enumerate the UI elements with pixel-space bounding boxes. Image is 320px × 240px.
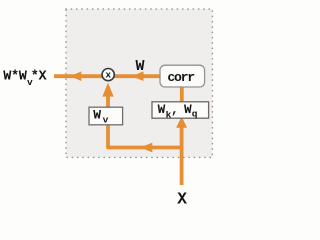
label W*Wv*X (output) (3, 69, 47, 87)
svg-text:W: W (184, 102, 192, 117)
svg-text:W*W: W*W (3, 69, 27, 84)
wire: branch from X line left then up to Wv box (108, 125, 182, 147)
wire: Wv box up to multiply circle (106, 96, 110, 108)
wire: corr box down to Wk,Wq box (180, 87, 184, 102)
dotted container box (66, 9, 212, 157)
svg-text:,: , (171, 102, 179, 117)
corr box (160, 65, 205, 87)
multiply node (circle with x) (102, 69, 114, 81)
svg-text:W: W (158, 102, 166, 117)
box Wk, Wq (152, 102, 209, 121)
arrowhead on output wire (points left) (70, 71, 81, 81)
arrowhead into multiply circle (points up) (102, 83, 113, 97)
wire: input X up to Wk,Wq box (180, 126, 184, 185)
svg-text:*X: *X (31, 69, 48, 84)
arrowhead into Wk,Wq box (points up) (176, 117, 187, 128)
svg-text:v: v (103, 114, 109, 125)
svg-text:W: W (136, 58, 145, 75)
svg-text:corr: corr (167, 70, 194, 85)
wire: output line from multiply circle to left label (54, 74, 102, 78)
svg-text:q: q (192, 109, 198, 120)
svg-text:X: X (177, 191, 187, 209)
box Wv (89, 107, 123, 125)
wire: corr box to multiply circle (114, 74, 160, 78)
svg-text:x: x (105, 69, 111, 80)
arrowhead corr-to-circle (points left) (132, 71, 144, 81)
svg-text:W: W (93, 108, 101, 123)
arrowhead on branch wire (points left) (140, 143, 152, 153)
